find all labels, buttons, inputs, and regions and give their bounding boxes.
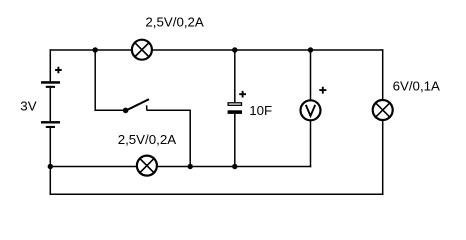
wire switch branch left horizontal (95, 109, 125, 111)
wire capacitor branch upper (234, 50, 236, 102)
wire middle bottom rail (50, 166, 310, 168)
battery 3V cell 1 long plate (41, 81, 60, 84)
lamp 2,5V/0,2A bottom cross (139, 158, 155, 174)
voltmeter V glyph (306, 105, 315, 116)
wire switch branch vertical to middle rail (189, 110, 191, 166)
svg-text:3V: 3V (20, 99, 36, 114)
node junction capacitor branch / middle rail (232, 164, 237, 169)
battery 3V cell 2 short plate (46, 126, 55, 128)
lamp 2,5V/0,2A bottom circle (137, 156, 157, 176)
wire switch branch vertical from top rail (94, 50, 96, 110)
svg-text:2,5V/0,2A: 2,5V/0,2A (118, 132, 177, 147)
capacitor plus sign (239, 91, 246, 98)
wire switch branch right horizontal (147, 109, 191, 111)
node junction top rail / switch branch (93, 47, 98, 52)
capacitor 10F top plate (228, 103, 241, 106)
lamp 6V/0,1A cross (375, 102, 391, 118)
lamp 2,5V/0,2A top circle (132, 40, 152, 60)
switch blade (126, 99, 149, 111)
switch contact dot (123, 108, 129, 114)
voltmeter plus sign (319, 87, 326, 94)
wire capacitor branch lower (234, 114, 236, 167)
lamp 2,5V/0,2A top cross (134, 42, 150, 58)
wire right branch (382, 50, 384, 194)
node junction switch branch / middle rail (188, 164, 193, 169)
wire voltmeter branch (310, 50, 312, 167)
battery 3V cell 1 short plate (46, 86, 55, 88)
svg-text:2,5V/0,2A: 2,5V/0,2A (145, 15, 204, 30)
svg-text:6V/0,1A: 6V/0,1A (393, 78, 440, 93)
svg-text:10F: 10F (249, 103, 272, 118)
wire left branch lower (49, 128, 51, 194)
capacitor 10F bottom plate (228, 110, 242, 114)
wire left branch between cells (49, 88, 51, 121)
wire bottom rail (50, 193, 382, 195)
voltmeter circle (301, 100, 321, 120)
node junction left branch / middle rail (48, 164, 53, 169)
node junction top rail / capacitor branch (232, 47, 237, 52)
battery 3V cell 2 long plate (41, 121, 60, 123)
battery plus sign (55, 67, 62, 74)
wire left branch upper (49, 50, 51, 81)
lamp 6V/0,1A circle (373, 100, 393, 120)
node junction top rail / voltmeter branch (308, 47, 313, 52)
switch right contact tick (146, 105, 148, 110)
wire top rail (50, 49, 382, 51)
